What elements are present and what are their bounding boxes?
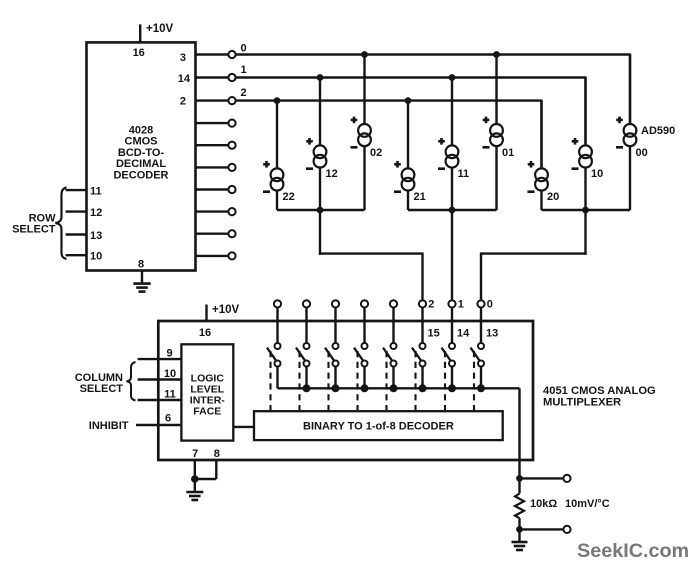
sensor 11 plus terminal mark (438, 138, 445, 145)
U2 pin number 7 (192, 448, 198, 460)
U1 pin 8 ground wire (141, 271, 143, 284)
resistor R1 10k zigzag (515, 494, 524, 519)
INHIBIT label (89, 420, 129, 432)
junction on row line 2 at sensor 22 column (274, 97, 281, 104)
wire column-select input C (pin 11) (138, 399, 182, 401)
svg-text:CMOS: CMOS (125, 136, 158, 148)
switch S0 lower contact (275, 361, 281, 367)
sensor 21 minus terminal mark (394, 190, 401, 193)
U1 pin number 8 (138, 258, 144, 270)
U1 pin number 11 (90, 185, 102, 197)
AD590 part label (641, 125, 675, 137)
switch S2 arm (325, 348, 335, 362)
svg-text:10mV/°C: 10mV/°C (565, 498, 610, 510)
ground at output divider (512, 542, 528, 550)
wire right group jog (480, 252, 587, 254)
sensor 10 designator label (591, 168, 603, 180)
svg-text:+10V: +10V (146, 23, 174, 35)
dashed control line to switch S1 (298, 351, 300, 410)
svg-text:6: 6 (165, 412, 171, 424)
junction on row line 1 at sensor 12 column (317, 74, 324, 81)
svg-text:8: 8 (214, 448, 220, 460)
wire row-select input D (pin 10) (66, 254, 87, 256)
wire sensor 22 bottom lead (276, 190, 278, 210)
sensor 11 designator label (458, 168, 470, 180)
wire sensor 21 bottom lead (407, 190, 409, 210)
current source sensor 11 (AD590) body (446, 145, 459, 167)
junction on output bus col1 (303, 384, 311, 392)
switch S7 arm (471, 348, 481, 362)
junction middle column bus (449, 207, 456, 214)
wire sensor 00 top lead (629, 55, 631, 126)
wire U1 unused output stub 6 (196, 166, 229, 168)
U2 pin number 8 (214, 448, 220, 460)
switch S5 lower contact (420, 361, 426, 367)
U1 pin number 3 (180, 52, 186, 64)
svg-text:14: 14 (178, 73, 191, 85)
svg-text:21: 21 (414, 191, 426, 203)
wire U1 unused output stub 10 (196, 255, 229, 257)
sensor 02 plus terminal mark (351, 117, 358, 124)
logic level interface label (190, 372, 226, 417)
wire U1 unused output stub 7 (196, 188, 229, 190)
wire sensor 21 top lead (407, 101, 409, 170)
sensor 10 plus terminal mark (572, 138, 579, 145)
svg-text:8: 8 (138, 258, 144, 270)
svg-text:0: 0 (487, 298, 493, 310)
wire mux channel col4 into switch (392, 307, 394, 344)
svg-text:13: 13 (486, 328, 498, 340)
U1 pin number 13 (90, 230, 102, 242)
wire mux channel col1 into switch (305, 307, 307, 344)
svg-text:INHIBIT: INHIBIT (89, 420, 129, 432)
wire sensor 12 top lead (319, 78, 321, 147)
junction on output bus col5 (419, 384, 427, 392)
wire column bus right group (542, 209, 631, 211)
svg-text:4028: 4028 (129, 125, 153, 137)
dashed control line to switch S6 (444, 351, 446, 410)
switch S0 upper contact (275, 343, 281, 349)
svg-text:10: 10 (90, 250, 102, 262)
IC U2 4051 analog multiplexer body (158, 321, 533, 460)
svg-text:12: 12 (326, 168, 338, 180)
junction on output bus col6 (448, 384, 456, 392)
svg-text:10: 10 (591, 168, 603, 180)
terminal circle on row line 1 (228, 74, 235, 81)
junction on row line 2 at sensor 21 column (405, 97, 412, 104)
sensor 21 plus terminal mark (394, 161, 401, 168)
svg-text:16: 16 (199, 327, 211, 339)
wire output node to terminal (520, 477, 564, 479)
U2 pin number 9 (166, 347, 172, 359)
wire row line 0 horizontal (235, 53, 630, 55)
U1 +10V supply label (146, 23, 174, 35)
sensor 20 minus terminal mark (528, 190, 535, 193)
sensor 12 minus terminal mark (306, 167, 313, 170)
wire U1 unused output stub 5 (196, 144, 229, 146)
terminal circle mux channel pin col4 (390, 300, 397, 307)
U1 pin number 16 (133, 47, 145, 59)
wire U1 unused output stub 9 (196, 232, 229, 234)
wire mux channel col0 into switch (276, 307, 278, 344)
wire lower node to ground (518, 529, 520, 541)
current source sensor 10 (AD590) body (579, 145, 592, 167)
wire row-select input C (pin 13) (66, 233, 87, 235)
sensor 01 minus terminal mark (483, 146, 490, 149)
terminal circle mux channel pin col1 (303, 300, 310, 307)
switch S6 upper contact (449, 343, 455, 349)
svg-text:11: 11 (90, 185, 102, 197)
wire row line 2 elbow down to sensor 20 (540, 100, 542, 169)
terminal circle on row line 0 (228, 51, 235, 58)
sensor 21 designator label (414, 191, 426, 203)
wire row line 1 elbow down to sensor 10 (584, 77, 586, 146)
wire sensor 01 top lead (495, 55, 497, 126)
wire switch S4 output to bus (392, 366, 394, 388)
sensor 11 minus terminal mark (438, 167, 445, 170)
junction on output bus col4 (390, 384, 398, 392)
dashed control line to switch S4 (385, 351, 387, 410)
terminal circle on unused output 5 (228, 142, 235, 149)
wire row line 2 segment from U1 pin 2 (196, 99, 229, 101)
wire column bus left group (277, 209, 365, 211)
svg-text:ROW: ROW (29, 212, 57, 224)
svg-text:FACE: FACE (193, 406, 221, 418)
wire column-select input A (pin 9) (138, 358, 182, 360)
svg-text:22: 22 (283, 191, 295, 203)
output scale label 10mV/degC (565, 498, 610, 510)
svg-text:SELECT: SELECT (80, 383, 124, 395)
switch S7 lower contact (478, 361, 484, 367)
current source sensor 22 (AD590) body (271, 168, 284, 190)
switch S1 arm (296, 348, 306, 362)
svg-text:20: 20 (547, 191, 559, 203)
dashed control line to switch S0 (269, 351, 271, 410)
junction at lower output node (516, 526, 523, 533)
wire row line 0 elbow down to sensor 00 (629, 54, 631, 125)
junction on row line 0 at sensor 01 column (493, 51, 500, 58)
switch S6 arm (442, 348, 452, 362)
svg-text:3: 3 (180, 52, 186, 64)
binary decoder label (303, 421, 454, 433)
U1 pin number 14 (178, 73, 191, 85)
svg-text:1: 1 (458, 298, 464, 310)
svg-text:MULTIPLEXER: MULTIPLEXER (543, 397, 621, 409)
wire switch S7 output to bus (480, 366, 482, 388)
ground at U2 pins 7-8 (186, 492, 203, 500)
U1 label text 4028 CMOS BCD-TO-DECIMAL DECODER (113, 125, 168, 182)
switch S3 lower contact (362, 361, 368, 367)
wire column bus middle group (408, 209, 497, 211)
junction on output bus col3 (361, 384, 369, 392)
U2 pin number 16 (199, 327, 211, 339)
switch S1 lower contact (304, 361, 310, 367)
wire switch S3 output to bus (363, 366, 365, 388)
U2 part label 4051 CMOS ANALOG MULTIPLEXER (543, 385, 656, 408)
sensor 02 minus terminal mark (351, 146, 358, 149)
switch S0 arm (267, 348, 277, 362)
wire sensor 01 bottom lead (495, 145, 497, 210)
current source sensor 02 (AD590) body (358, 124, 371, 146)
junction left column bus (317, 207, 324, 214)
wire U1 unused output stub 8 (196, 210, 229, 212)
terminal circle mux channel pin col3 (361, 300, 368, 307)
svg-text:DECODER: DECODER (113, 169, 168, 181)
wire mux channel col5 into switch (421, 307, 423, 344)
wire sensor 12 bottom lead (319, 167, 321, 210)
svg-text:BCD-TO-: BCD-TO- (118, 147, 165, 159)
ground at U1 pin 8 (133, 284, 150, 292)
svg-text:9: 9 (166, 347, 172, 359)
wire mux input 2 riser (421, 254, 423, 300)
svg-text:02: 02 (370, 147, 382, 159)
current source sensor 21 (AD590) body (402, 168, 415, 190)
wire switch S1 output to bus (305, 366, 307, 388)
switch S4 arm (383, 348, 393, 362)
terminal circle on unused output 10 (228, 252, 235, 259)
switch S2 lower contact (333, 361, 339, 367)
switch S4 lower contact (391, 361, 397, 367)
node label 2 at mux input (428, 298, 434, 310)
U2 pin number 15 (428, 328, 440, 340)
resistor R1 value label 10k&#937; (530, 498, 557, 510)
wire common output bus down (518, 388, 520, 478)
svg-text:12: 12 (90, 207, 102, 219)
sensor 20 designator label (547, 191, 559, 203)
ROW SELECT brace (56, 188, 67, 259)
svg-text:11: 11 (164, 389, 176, 401)
node label 1 at mux input (458, 298, 464, 310)
U1 pin number 12 (90, 207, 102, 219)
wire U2 pin 7 down (194, 460, 196, 479)
wire pin7-pin8 tie (195, 478, 217, 480)
wire sensor 20 bottom lead (540, 190, 542, 210)
current source sensor 00 (AD590) body (624, 124, 637, 146)
wire switch S0 output to bus (276, 366, 278, 388)
sensor 22 designator label (283, 191, 295, 203)
svg-text:14: 14 (457, 328, 470, 340)
wire U2 pin 8 down (215, 460, 217, 479)
switch S1 upper contact (304, 343, 310, 349)
switch S4 upper contact (391, 343, 397, 349)
wire logic interface to decoder (233, 426, 254, 428)
wire mux channel col6 into switch (451, 307, 453, 344)
svg-text:7: 7 (192, 448, 198, 460)
wire row line 0 segment from U1 pin 3 (196, 53, 229, 55)
junction at output node (516, 475, 523, 482)
wire middle group drop to mux input 1 (451, 210, 453, 299)
junction right column bus (582, 207, 589, 214)
junction on row line 1 at sensor 11 column (449, 74, 456, 81)
wire sensor 22 top lead (276, 101, 278, 170)
terminal circle on unused output 9 (228, 230, 235, 237)
COLUMN SELECT brace (127, 362, 136, 401)
switch S6 lower contact (449, 361, 455, 367)
svg-text:BINARY TO 1-of-8 DECODER: BINARY TO 1-of-8 DECODER (303, 421, 454, 433)
COLUMN SELECT label (75, 372, 124, 395)
sensor 20 plus terminal mark (528, 161, 535, 168)
wire sensor 02 top lead (363, 55, 365, 126)
sensor 10 minus terminal mark (572, 167, 579, 170)
wire sensor 10 bottom lead (584, 167, 586, 210)
terminal circle mux channel pin col6 (448, 300, 455, 307)
wire output node to resistor (518, 478, 520, 493)
wire switch S2 output to bus (334, 366, 336, 388)
wire column-select input B (pin 10) (138, 378, 182, 380)
wire switch S5 output to bus (421, 366, 423, 388)
inner block logic level interface (181, 344, 233, 440)
dashed control line to switch S2 (327, 351, 329, 410)
node label 0 (row line 0) (241, 42, 247, 54)
svg-text:1: 1 (241, 64, 247, 76)
svg-text:COLUMN: COLUMN (75, 372, 123, 384)
sensor 00 plus terminal mark (616, 117, 623, 124)
current source sensor 12 (AD590) body (314, 145, 327, 167)
svg-text:SELECT: SELECT (12, 224, 56, 236)
wire to U2 ground (194, 479, 196, 491)
wire sensor 20 top lead (540, 101, 542, 170)
inner block binary to 1-of-8 decoder (254, 411, 503, 440)
wire row line 2 horizontal (235, 99, 541, 101)
node label 2 (row line 2) (241, 87, 247, 99)
SeekIC.com watermark (577, 540, 689, 562)
sensor 01 plus terminal mark (483, 117, 490, 124)
U2 +10V supply label (212, 304, 240, 316)
wire row-select input A (pin 11) (66, 189, 87, 191)
IC U1 4028 BCD-to-decimal decoder body (87, 42, 196, 270)
terminal circle mux channel pin col5 (419, 300, 426, 307)
sensor 12 designator label (326, 168, 338, 180)
U1 pin 16 Vdd wire (139, 24, 141, 42)
wire resistor to lower node (518, 518, 520, 529)
terminal circle on unused output 4 (228, 120, 235, 127)
svg-text:2: 2 (428, 298, 434, 310)
junction on output bus col7 (477, 384, 485, 392)
terminal circle output low (563, 526, 570, 533)
wire left group jog (319, 252, 424, 254)
sensor 02 designator label (370, 147, 382, 159)
U2 pin number 6 (165, 412, 171, 424)
wire sensor 10 top lead (584, 78, 586, 147)
U2 pin number 14 (457, 328, 470, 340)
svg-text:DECIMAL: DECIMAL (116, 158, 166, 170)
terminal circle mux channel pin col0 (274, 300, 281, 307)
sensor 01 designator label (502, 147, 514, 159)
switch S3 arm (354, 348, 364, 362)
wire inhibit input (pin 6) (136, 424, 181, 426)
wire common output bus horizontal (278, 387, 520, 389)
wire sensor 11 top lead (451, 78, 453, 147)
svg-text:11: 11 (458, 168, 470, 180)
wire mux channel col7 into switch (480, 307, 482, 344)
switch S2 upper contact (333, 343, 339, 349)
terminal circle on unused output 8 (228, 208, 235, 215)
U2 pin number 13 (486, 328, 498, 340)
svg-text:15: 15 (428, 328, 440, 340)
terminal circle on unused output 6 (228, 164, 235, 171)
node label 0 at mux input (487, 298, 493, 310)
svg-text:10: 10 (164, 368, 176, 380)
terminal circle output high (563, 475, 570, 482)
terminal circle on row line 2 (228, 97, 235, 104)
ROW SELECT label (12, 212, 56, 235)
wire sensor 11 bottom lead (451, 167, 453, 210)
svg-text:16: 16 (133, 47, 145, 59)
wire lower node to terminal (520, 528, 564, 530)
switch S5 upper contact (420, 343, 426, 349)
wire right group drop (584, 210, 586, 255)
wire row line 1 horizontal (235, 76, 585, 78)
wire sensor 02 bottom lead (363, 145, 365, 210)
wire U1 unused output stub 4 (196, 122, 229, 124)
terminal circle mux channel pin col2 (332, 300, 339, 307)
wire mux channel col3 into switch (363, 307, 365, 344)
sensor 12 plus terminal mark (306, 138, 313, 145)
svg-text:01: 01 (502, 147, 514, 159)
wire mux input 0 riser (480, 254, 482, 300)
dashed control line to switch S3 (356, 351, 358, 410)
sensor 22 plus terminal mark (263, 161, 270, 168)
wire mux channel col2 into switch (334, 307, 336, 344)
wire row-select input B (pin 12) (66, 210, 87, 212)
junction on output bus col2 (332, 384, 340, 392)
sensor 00 designator label (636, 147, 648, 159)
svg-text:4051 CMOS ANALOG: 4051 CMOS ANALOG (543, 385, 656, 397)
terminal circle mux channel pin col7 (477, 300, 484, 307)
current source sensor 20 (AD590) body (535, 168, 548, 190)
svg-text:+10V: +10V (212, 304, 240, 316)
current source sensor 01 (AD590) body (490, 124, 503, 146)
U2 pin number 10 (164, 368, 176, 380)
junction on row line 0 at sensor 02 column (361, 51, 368, 58)
U1 pin number 10 (90, 250, 102, 262)
svg-text:AD590: AD590 (641, 125, 675, 137)
terminal circle on unused output 7 (228, 186, 235, 193)
junction at pin 7 ground (191, 475, 199, 483)
svg-text:10kΩ: 10kΩ (530, 498, 557, 510)
sensor 00 minus terminal mark (616, 146, 623, 149)
node label 1 (row line 1) (241, 64, 247, 76)
switch S7 upper contact (478, 343, 484, 349)
U1 pin number 2 (180, 95, 186, 107)
wire left group drop (319, 210, 321, 255)
svg-text:SeekIC.com: SeekIC.com (577, 540, 689, 562)
dashed control line to switch S7 (473, 351, 475, 410)
U2 pin 16 Vdd wire (205, 305, 207, 322)
dashed control line to switch S5 (414, 351, 416, 410)
wire sensor 00 bottom lead (629, 145, 631, 210)
svg-text:2: 2 (241, 87, 247, 99)
wire row line 1 segment from U1 pin 14 (196, 76, 229, 78)
svg-text:2: 2 (180, 95, 186, 107)
svg-text:0: 0 (241, 42, 247, 54)
U2 pin number 11 (164, 389, 176, 401)
svg-text:00: 00 (636, 147, 648, 159)
sensor 22 minus terminal mark (263, 190, 270, 193)
wire switch S6 output to bus (451, 366, 453, 388)
switch S3 upper contact (362, 343, 368, 349)
svg-text:13: 13 (90, 230, 102, 242)
switch S5 arm (412, 348, 422, 362)
